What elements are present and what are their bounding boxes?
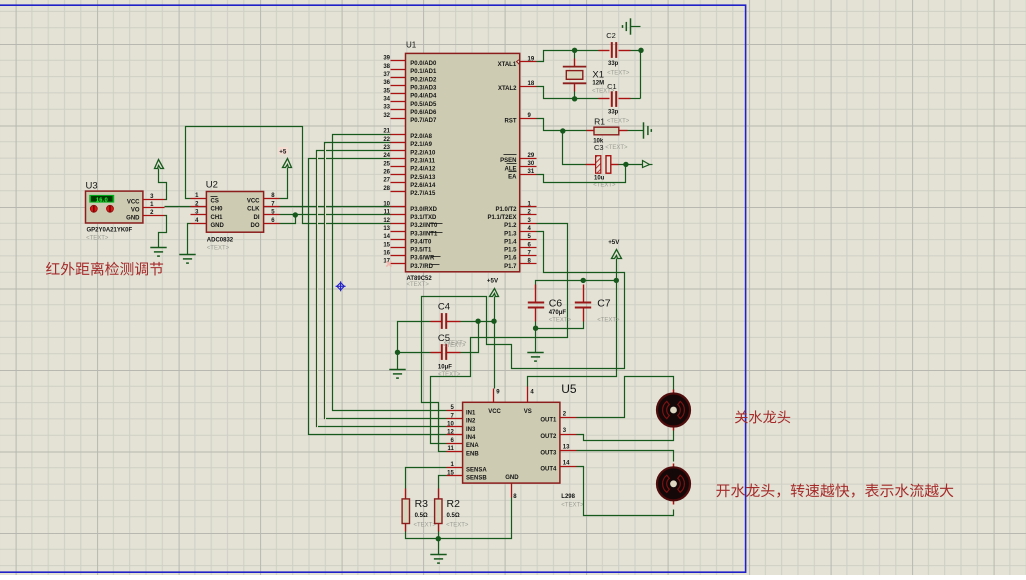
svg-text:ENA: ENA xyxy=(466,443,479,449)
wire SENSB to R2 xyxy=(439,476,447,489)
svg-text:X1: X1 xyxy=(592,70,604,81)
svg-text:33: 33 xyxy=(383,105,390,111)
sensor U3 GP2Y0A21YK0F xyxy=(86,180,165,241)
wire C5 right xyxy=(461,322,479,353)
wire P2.1 to IN2 xyxy=(325,143,447,419)
svg-text:P3.1/TXD: P3.1/TXD xyxy=(410,215,437,221)
ground U3 xyxy=(150,248,166,257)
svg-text:37: 37 xyxy=(383,72,390,78)
svg-text:28: 28 xyxy=(383,186,390,192)
svg-text:P1.6: P1.6 xyxy=(504,256,517,262)
svg-text:VCC: VCC xyxy=(127,199,140,205)
svg-text:R1: R1 xyxy=(594,117,605,127)
wire RST to C3 xyxy=(563,131,586,165)
svg-text:16: 16 xyxy=(383,250,390,256)
origin marker xyxy=(336,281,346,291)
svg-text:U5: U5 xyxy=(561,382,577,396)
svg-text:<TEXT>: <TEXT> xyxy=(561,503,584,509)
svg-text:10: 10 xyxy=(447,422,454,428)
wire P1.2 to ENA xyxy=(431,224,568,444)
ground C4C5 xyxy=(389,370,405,379)
node C6-gnd xyxy=(533,326,538,331)
IC U2 ADC0832 xyxy=(191,180,280,252)
svg-text:CH1: CH1 xyxy=(211,215,224,221)
svg-text:<TEXT>: <TEXT> xyxy=(607,118,630,124)
svg-text:L298: L298 xyxy=(561,494,575,500)
svg-text:13: 13 xyxy=(563,444,570,450)
svg-text:P2.0/A8: P2.0/A8 xyxy=(410,134,432,140)
svg-text:33p: 33p xyxy=(608,61,619,67)
svg-text:30: 30 xyxy=(528,161,535,167)
wire EA net xyxy=(537,165,626,183)
svg-text:39: 39 xyxy=(383,56,390,62)
svg-text:13: 13 xyxy=(383,226,390,232)
wire C4 right xyxy=(461,321,495,323)
svg-text:C3: C3 xyxy=(594,143,604,152)
svg-text:29: 29 xyxy=(528,153,535,159)
wire OUT2 to motor1 xyxy=(577,431,674,441)
wire DO join DI xyxy=(280,215,296,224)
svg-text:16.0: 16.0 xyxy=(96,197,108,203)
svg-text:15: 15 xyxy=(447,470,454,476)
svg-text:OUT1: OUT1 xyxy=(540,418,557,424)
svg-text:34: 34 xyxy=(383,96,390,102)
wire sense common xyxy=(406,498,512,539)
capacitor C7 xyxy=(575,285,620,324)
svg-text:<TEXT>: <TEXT> xyxy=(607,70,630,76)
svg-text:21: 21 xyxy=(383,129,390,135)
svg-text:10u: 10u xyxy=(594,175,605,181)
svg-text:<TEXT>: <TEXT> xyxy=(549,318,572,324)
svg-text:12M: 12M xyxy=(592,81,604,87)
knob left xyxy=(90,205,97,212)
svg-text:P0.0/AD0: P0.0/AD0 xyxy=(410,61,437,67)
resistor R2 xyxy=(435,489,469,532)
svg-text:P3.2/INT0: P3.2/INT0 xyxy=(410,223,438,229)
wire P1.3 to ENB xyxy=(422,232,625,452)
svg-text:P3.4/T0: P3.4/T0 xyxy=(410,239,432,245)
svg-text:P0.1/AD1: P0.1/AD1 xyxy=(410,69,437,75)
wire XTAL2 net xyxy=(537,87,599,99)
svg-text:OUT4: OUT4 xyxy=(540,467,557,473)
svg-text:U1: U1 xyxy=(406,41,417,50)
wire U3 VO to CH0 xyxy=(165,206,191,208)
svg-text:P2.5/A13: P2.5/A13 xyxy=(410,175,436,181)
svg-text:EA: EA xyxy=(508,175,517,181)
svg-text:<TEXT>: <TEXT> xyxy=(605,145,628,151)
artifact lines xyxy=(317,153,319,428)
node XTAL1-C2 xyxy=(572,48,577,53)
capacitor C4 xyxy=(431,301,467,346)
svg-text:<TEXT>: <TEXT> xyxy=(446,522,469,528)
svg-text:11: 11 xyxy=(447,446,454,452)
svg-text:<TEXT>: <TEXT> xyxy=(407,282,430,288)
svg-text:P2.1/A9: P2.1/A9 xyxy=(410,142,432,148)
svg-text:14: 14 xyxy=(563,461,570,467)
crystal X1 xyxy=(563,51,615,99)
svg-text:36: 36 xyxy=(383,80,390,86)
svg-text:38: 38 xyxy=(383,64,390,70)
display 16.0 xyxy=(89,195,114,203)
wire OUT3 to motor2 xyxy=(577,451,674,462)
svg-text:<TEXT>: <TEXT> xyxy=(207,246,230,252)
power +5 U3 xyxy=(155,160,164,169)
svg-text:CH0: CH0 xyxy=(211,207,224,213)
svg-text:10μF: 10μF xyxy=(438,365,452,371)
svg-text:<TEXT>: <TEXT> xyxy=(438,372,461,378)
sheet border xyxy=(0,5,746,572)
svg-text:P1.0/T2: P1.0/T2 xyxy=(495,207,517,213)
wire P2.3 to IN4 xyxy=(309,159,447,435)
svg-text:VO: VO xyxy=(131,207,140,213)
svg-text:<TEXT>: <TEXT> xyxy=(592,89,615,95)
label red distance xyxy=(46,262,163,276)
svg-text:R3: R3 xyxy=(415,498,429,510)
svg-text:P1.2: P1.2 xyxy=(504,223,517,229)
motor M1 xyxy=(657,390,690,431)
resistor R1 xyxy=(587,117,628,145)
node rail-VCC9 xyxy=(491,319,496,324)
svg-text:CLK: CLK xyxy=(247,207,260,213)
wire +5V rail C6C7 xyxy=(528,259,617,387)
svg-text:15: 15 xyxy=(383,242,390,248)
svg-text:P0.3/AD3: P0.3/AD3 xyxy=(410,85,437,91)
svg-text:XTAL2: XTAL2 xyxy=(498,86,517,92)
svg-text:VS: VS xyxy=(524,409,532,415)
svg-text:IN3: IN3 xyxy=(466,427,476,433)
node rail-stem xyxy=(614,278,619,283)
svg-text:18: 18 xyxy=(528,81,535,87)
wire SENSA to R3 xyxy=(406,468,447,489)
ground bottom xyxy=(430,555,446,564)
wire U2 GND to ground xyxy=(188,224,191,255)
resistor R3 xyxy=(402,489,436,532)
svg-text:P3.5/T1: P3.5/T1 xyxy=(410,248,432,254)
capacitor C3 xyxy=(586,143,629,189)
label close tap xyxy=(735,410,790,423)
wire U2 VCC to +5 xyxy=(280,168,288,199)
svg-text:P0.4/AD4: P0.4/AD4 xyxy=(410,94,437,100)
svg-text:RST: RST xyxy=(505,118,517,124)
wire R1 to ground xyxy=(628,130,644,132)
wire OUT1 to motor1 xyxy=(577,377,674,418)
svg-text:0.5Ω: 0.5Ω xyxy=(447,513,460,519)
svg-text:ADC0832: ADC0832 xyxy=(207,237,234,243)
svg-text:32: 32 xyxy=(383,113,390,119)
node rail-C7 xyxy=(581,278,586,283)
wire C1 right xyxy=(631,98,641,100)
svg-text:DO: DO xyxy=(251,223,260,229)
svg-text:P1.5: P1.5 xyxy=(504,248,517,254)
ground right of R1 xyxy=(644,122,652,138)
capacitor C5 xyxy=(431,333,466,378)
svg-text:IN2: IN2 xyxy=(466,419,476,425)
svg-text:<TEXT>: <TEXT> xyxy=(593,183,616,189)
knob right xyxy=(107,205,114,212)
svg-text:C7: C7 xyxy=(597,298,611,310)
power +5V C6 xyxy=(608,239,621,259)
svg-text:35: 35 xyxy=(383,88,390,94)
svg-text:12: 12 xyxy=(447,430,454,436)
wire OUT4 to motor2 xyxy=(577,467,674,516)
node C2-gnd xyxy=(638,48,643,53)
svg-text:P0.6/AD6: P0.6/AD6 xyxy=(410,110,437,116)
svg-text:P1.7: P1.7 xyxy=(504,264,517,270)
svg-text:C4: C4 xyxy=(438,301,450,312)
wire DI to P3.1 xyxy=(280,214,391,216)
capacitor C6 xyxy=(528,285,572,324)
svg-text:P0.2/AD2: P0.2/AD2 xyxy=(410,77,437,83)
svg-text:ENB: ENB xyxy=(466,451,479,457)
wire P2.2 to IN3 xyxy=(317,151,447,427)
svg-text:GND: GND xyxy=(505,475,519,481)
svg-text:P2.4/A12: P2.4/A12 xyxy=(410,167,436,173)
clock marker XTAL1 xyxy=(517,60,520,65)
svg-text:XTAL1: XTAL1 xyxy=(498,62,517,68)
svg-text:14: 14 xyxy=(383,234,390,240)
wire +5V to VCC9 xyxy=(494,297,496,389)
svg-text:+5V: +5V xyxy=(608,239,620,246)
svg-text:SENSB: SENSB xyxy=(466,476,487,482)
svg-text:<TEXT>: <TEXT> xyxy=(86,236,109,242)
wire C3 to arrow xyxy=(619,164,643,166)
svg-text:31: 31 xyxy=(528,169,535,175)
svg-text:P2.3/A11: P2.3/A11 xyxy=(410,158,435,164)
svg-text:P1.1/T2EX: P1.1/T2EX xyxy=(487,215,516,221)
svg-text:P3.7/RD: P3.7/RD xyxy=(410,264,433,270)
node XTAL2-X1 xyxy=(572,96,577,101)
power +5 U2 xyxy=(278,147,291,167)
svg-text:GND: GND xyxy=(126,215,140,221)
svg-text:P2.6/A14: P2.6/A14 xyxy=(410,183,436,189)
svg-text:OUT3: OUT3 xyxy=(540,450,557,456)
svg-text:CS: CS xyxy=(211,198,219,204)
svg-text:P1.3: P1.3 xyxy=(504,231,517,237)
svg-text:P2.2/A10: P2.2/A10 xyxy=(410,150,436,156)
svg-text:19: 19 xyxy=(528,57,535,63)
svg-text:VCC: VCC xyxy=(488,409,501,415)
arrow terminal EA net xyxy=(643,161,650,168)
svg-text:+5V: +5V xyxy=(487,278,499,285)
node C5-gnd xyxy=(395,350,400,355)
svg-text:IN1: IN1 xyxy=(466,411,476,417)
node sense xyxy=(436,536,441,541)
svg-text:P0.5/AD5: P0.5/AD5 xyxy=(410,102,437,108)
svg-text:+5: +5 xyxy=(279,148,287,155)
wire C6 C7 bottoms xyxy=(536,322,584,353)
capacitor C1 xyxy=(599,82,631,124)
svg-text:DI: DI xyxy=(254,215,260,221)
capacitor C2 xyxy=(599,31,631,77)
node RST-R1 xyxy=(560,128,565,133)
svg-text:P0.7/AD7: P0.7/AD7 xyxy=(410,118,437,124)
wire U3 VCC to +5 xyxy=(159,169,167,200)
svg-text:27: 27 xyxy=(383,178,390,184)
ground top right xyxy=(623,18,631,34)
svg-text:<TEXT>: <TEXT> xyxy=(443,343,466,349)
wire C4 left xyxy=(398,322,431,370)
wire CS to P3.2 xyxy=(186,127,391,224)
svg-text:AT89C52: AT89C52 xyxy=(407,276,433,282)
ground C6 xyxy=(527,353,543,362)
svg-text:C2: C2 xyxy=(606,31,616,40)
svg-text:VCC: VCC xyxy=(247,198,260,204)
svg-text:C6: C6 xyxy=(549,298,563,310)
svg-text:P2.7/A15: P2.7/A15 xyxy=(410,191,436,197)
svg-text:OUT2: OUT2 xyxy=(540,434,557,440)
svg-text:GP2Y0A21YK0F: GP2Y0A21YK0F xyxy=(87,228,133,234)
ground U2 xyxy=(179,255,195,264)
svg-text:R2: R2 xyxy=(447,498,461,510)
wire RST net xyxy=(537,119,557,131)
wire U3 GND to ground xyxy=(159,216,167,248)
svg-text:33p: 33p xyxy=(608,109,619,115)
wire XTAL1 net xyxy=(537,51,599,62)
no-connect mark P3.7 xyxy=(386,261,391,266)
label open tap xyxy=(716,483,953,497)
svg-text:25: 25 xyxy=(383,161,390,167)
wire CLK to P3.0 xyxy=(280,206,391,208)
IC U1 AT89C52 microcontroller xyxy=(383,41,536,289)
node DI-DO xyxy=(293,212,298,217)
wire C5 left xyxy=(398,352,431,354)
svg-text:SENSA: SENSA xyxy=(466,468,487,474)
svg-text:P3.0/RXD: P3.0/RXD xyxy=(410,207,437,213)
svg-text:0.5Ω: 0.5Ω xyxy=(415,513,428,519)
svg-text:<TEXT>: <TEXT> xyxy=(414,522,437,528)
svg-text:470μF: 470μF xyxy=(549,310,567,316)
node C3-EA xyxy=(623,162,628,167)
wire to ground bottom xyxy=(438,539,440,555)
node C4-C5 plus xyxy=(475,319,480,324)
svg-text:26: 26 xyxy=(383,169,390,175)
svg-text:P1.4: P1.4 xyxy=(504,239,517,245)
motor M2 xyxy=(657,464,690,505)
wire P2.0 to IN1 xyxy=(333,135,447,411)
svg-text:U3: U3 xyxy=(86,180,98,191)
IC U5 L298 motor driver xyxy=(447,382,585,509)
svg-text:<TEXT>: <TEXT> xyxy=(597,318,620,324)
power +5V C4 xyxy=(487,278,499,297)
svg-text:IN4: IN4 xyxy=(466,435,476,441)
svg-text:U2: U2 xyxy=(206,180,218,191)
svg-text:GND: GND xyxy=(211,223,225,229)
